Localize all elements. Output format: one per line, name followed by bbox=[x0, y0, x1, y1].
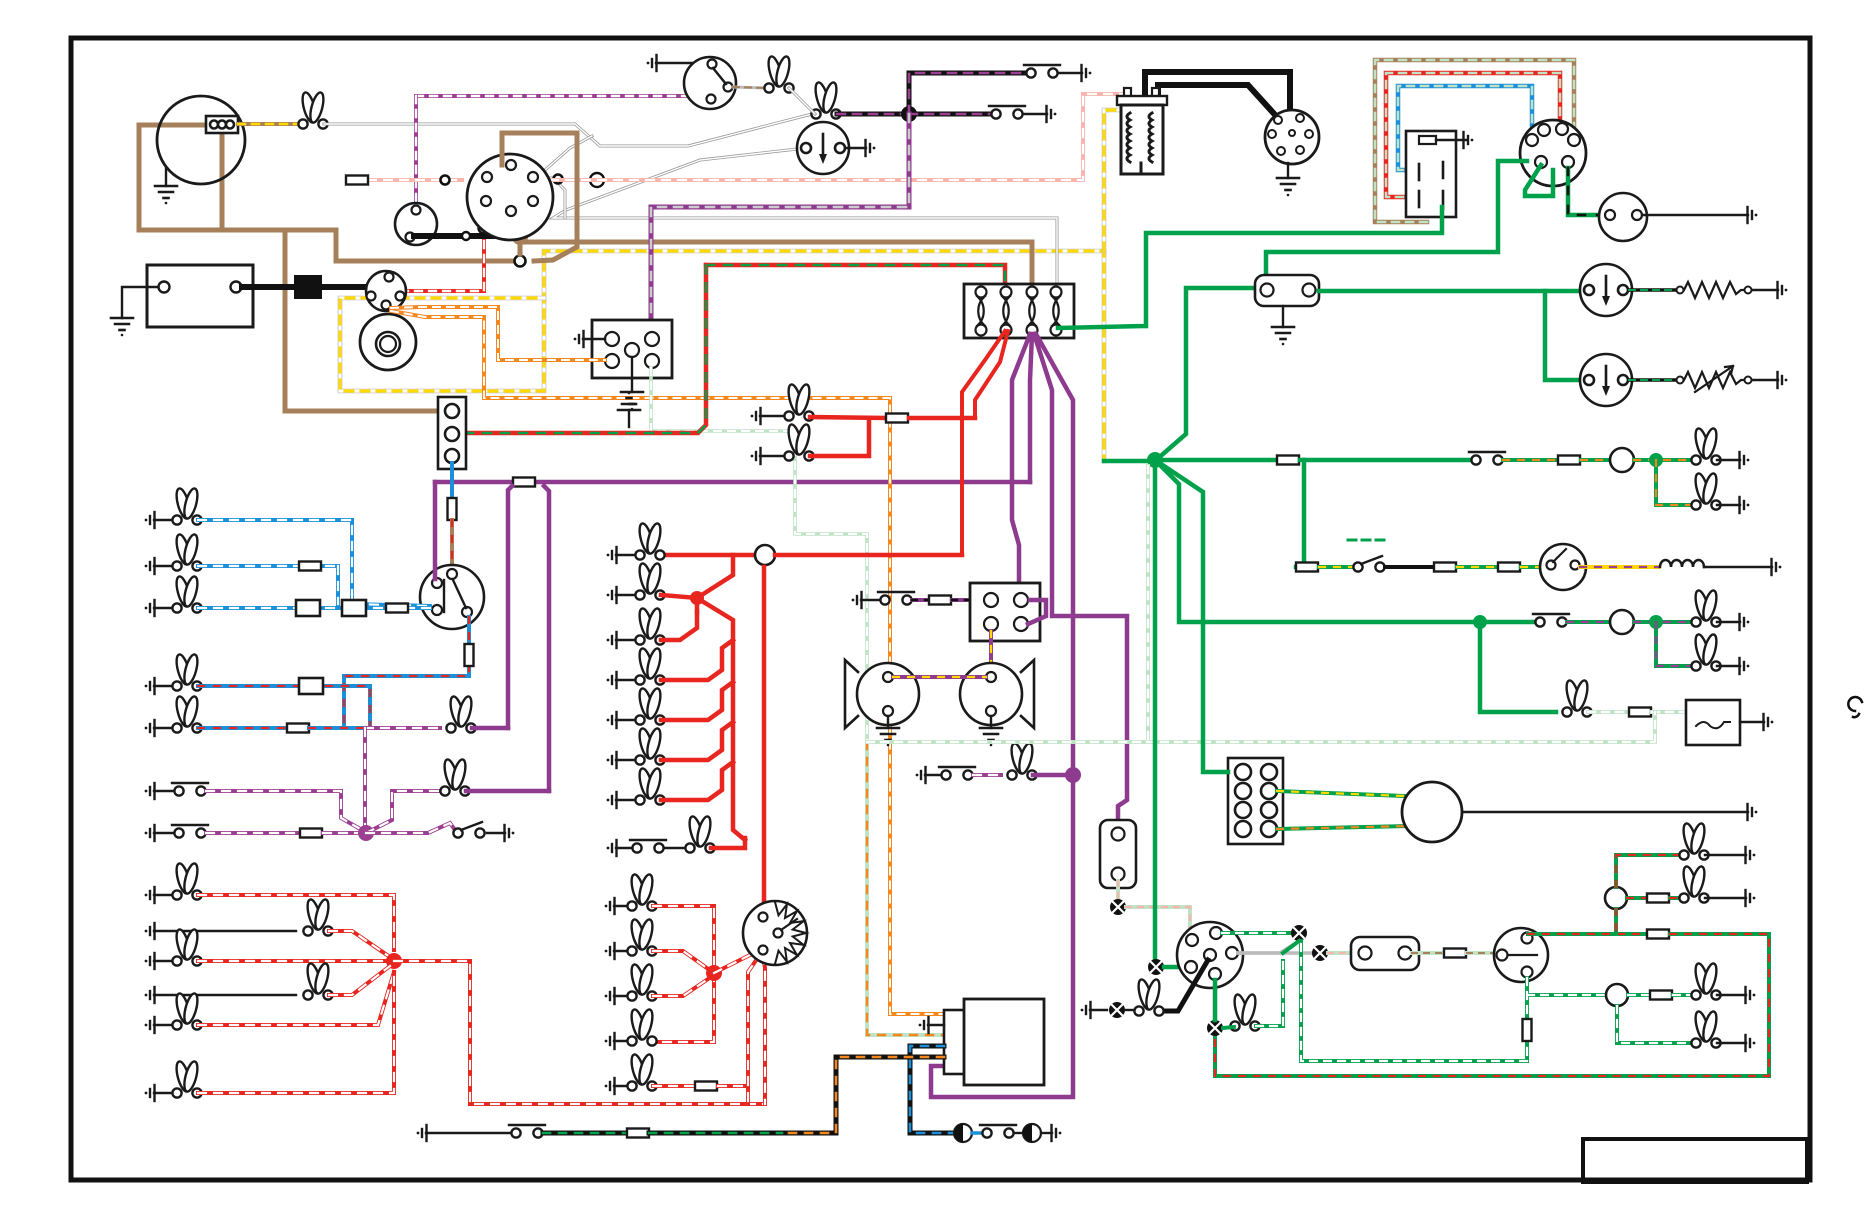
stop lamp switch rounded box bbox=[1100, 820, 1136, 888]
lamp LH front indicator bbox=[1230, 993, 1259, 1030]
wire red lamp row feeds upper mid bbox=[751, 408, 761, 424]
wire black/blue wiper to washer switch bbox=[910, 1046, 952, 1133]
wire red/white tail LH bbox=[198, 895, 394, 950]
lamp beam warning bbox=[145, 600, 155, 616]
wire black battery to solenoid bbox=[242, 284, 368, 290]
starter solenoid bbox=[366, 271, 406, 311]
wire black lever to horn push bbox=[1166, 960, 1208, 1011]
wire grey column feed to fusebox bbox=[553, 148, 1057, 290]
row 4: glovebox lamp bbox=[1480, 622, 1556, 712]
heater motor switch circle bbox=[1540, 544, 1586, 590]
ground relay left bbox=[583, 338, 605, 340]
node green main bbox=[1147, 452, 1163, 468]
washer pump row bbox=[954, 1124, 972, 1142]
wire brown connector drop bbox=[220, 131, 225, 230]
ignition switch bbox=[467, 154, 553, 240]
wire purple lamp2 to trunk B bbox=[466, 789, 549, 794]
flasher unit turn bbox=[797, 122, 849, 174]
wire purple/white lamp feed bbox=[365, 726, 440, 730]
wire purple to panel feed bbox=[1030, 334, 1032, 482]
lamp panel 2 bbox=[607, 587, 617, 603]
temperature gauge bbox=[1580, 264, 1632, 316]
flasher unit 2 rounded bbox=[1351, 937, 1419, 970]
door switch box bbox=[1686, 700, 1740, 745]
wire grey column to snap2 bbox=[1238, 941, 1299, 953]
wire green/red big loop bbox=[1614, 909, 1618, 934]
branch to lamp 2 bbox=[1656, 460, 1694, 505]
switch map light bbox=[607, 840, 617, 856]
wire blue/red to junction bbox=[198, 726, 287, 730]
distributor bbox=[1265, 110, 1319, 164]
wire black/green with fuse bbox=[543, 1131, 627, 1136]
wire green/pale relay bottom drop bbox=[651, 368, 867, 742]
switch hazard top bbox=[1024, 65, 1060, 78]
lamp LH rear indicator bbox=[1617, 1006, 1694, 1043]
lamp panel 1 bbox=[607, 547, 617, 563]
title block bbox=[1583, 1139, 1807, 1182]
wire red/green loop from lighting connector bbox=[465, 265, 706, 433]
lighting switch bbox=[743, 901, 807, 965]
lamp inst 4 bbox=[605, 1033, 615, 1049]
lamp panel 6 bbox=[607, 752, 617, 768]
wire pale green snap to flasher bbox=[1328, 951, 1352, 955]
wire green/red to lamp RH front bbox=[1616, 855, 1682, 887]
wire red fusebox to lamps fan bbox=[909, 331, 1005, 555]
page curl mark bbox=[1848, 697, 1862, 717]
wiper motor connector circle bbox=[1520, 120, 1586, 186]
voltage stabilizer bbox=[1255, 275, 1319, 306]
wire green to flasher gauges bbox=[1319, 289, 1581, 294]
wire red/white main tail feed bbox=[394, 961, 765, 1104]
resistor temperature sender bbox=[1684, 282, 1745, 298]
horn RH bbox=[1021, 660, 1034, 728]
cigar lighter row bbox=[916, 767, 926, 783]
lamp inst 2 bbox=[605, 943, 615, 959]
lamp panel 7 bbox=[607, 792, 617, 808]
lamp tail RH bbox=[145, 1017, 155, 1033]
battery bbox=[147, 265, 253, 327]
ring terminals pink run bbox=[441, 176, 450, 185]
wire green/yellow to speedometer bbox=[1277, 791, 1404, 796]
lamp interior light 1 bbox=[446, 695, 475, 732]
junction red dot bbox=[386, 953, 402, 969]
junction red small bbox=[690, 591, 704, 605]
starter motor bbox=[360, 314, 416, 370]
brake pressure switch bbox=[684, 57, 736, 109]
wire purple/white row B with fuse bbox=[206, 831, 299, 835]
wire brown/red fuse to dip switch bbox=[450, 520, 454, 572]
ground brake switch bbox=[647, 55, 657, 71]
ground horn switch bbox=[852, 592, 862, 608]
horn relay bbox=[970, 583, 1040, 641]
lamp panel 5 bbox=[607, 712, 617, 728]
wire blue/red dip to fog lamps bbox=[325, 617, 469, 728]
wire white to column bbox=[324, 114, 812, 146]
lamp hazard warning bbox=[811, 81, 840, 118]
lamp boot bbox=[145, 1085, 155, 1101]
wire blue connector to dip fuse bbox=[450, 463, 454, 498]
indicator repeater circle R bbox=[1605, 887, 1627, 909]
junction white circle bbox=[661, 553, 753, 558]
wire to resistance bbox=[1629, 288, 1676, 292]
wire green/black to gauge bbox=[1568, 168, 1604, 215]
wiper motor assembly bbox=[944, 1010, 966, 1074]
wire blue/white to dip switch bbox=[198, 606, 430, 610]
lamp ignition warning bbox=[298, 91, 327, 128]
wire to fuel sender bbox=[1629, 378, 1676, 382]
wire orange main run to wiper motor bbox=[391, 311, 946, 1014]
lamp number plate 1 bbox=[145, 923, 155, 939]
wire purple to brake switch box bbox=[1034, 334, 1127, 820]
wire red feed from lamp circuit bbox=[762, 567, 767, 912]
row 1: interior lamps bbox=[1155, 458, 1276, 463]
ground wiper bbox=[928, 1024, 944, 1026]
earth tap on red loop bbox=[628, 410, 630, 427]
wire purple/white row A bbox=[206, 791, 362, 830]
wire green/white loop via bottom bbox=[1301, 941, 1527, 1061]
lamp number plate 2 bbox=[145, 987, 155, 1003]
row 3: courtesy lamps bbox=[1155, 460, 1477, 622]
wire red feed to fusebox bbox=[706, 265, 1005, 291]
indicator repeater circle L bbox=[1606, 984, 1628, 1006]
wire purple to horn relay bbox=[1012, 334, 1030, 596]
wire purple lamp to trunk bbox=[472, 726, 508, 731]
wire purple to dip switch bbox=[433, 482, 438, 579]
wire grey ignition switch upper right bbox=[536, 136, 592, 178]
lamp tail mid bbox=[145, 953, 155, 969]
wire blue/white main beam bbox=[198, 520, 430, 606]
junction purple dot bbox=[358, 825, 374, 841]
wire blue/white with fuse bbox=[198, 564, 338, 568]
tank unit 2-pin bbox=[1599, 193, 1647, 241]
wire purple/white dot to door switch bbox=[366, 823, 455, 833]
wire purple/white dot to courtesy lamp bbox=[366, 791, 444, 833]
lamp LH dip beam bbox=[145, 678, 155, 694]
wire purple/white feed to relay circle bbox=[416, 94, 700, 98]
wire purple/yellow between horns bbox=[893, 675, 986, 679]
wire green main to snap bbox=[1153, 460, 1158, 959]
wire brown generator feed bbox=[139, 125, 336, 230]
wire brown/green loop bbox=[1375, 60, 1574, 222]
wire pink ignition switch to coil bbox=[550, 94, 1124, 180]
wire brown long feed to fusebox bbox=[520, 242, 1032, 290]
lamp RH main beam bbox=[145, 558, 155, 574]
wire black/purple lamp to junction bbox=[837, 112, 909, 117]
wire pale green long bbox=[867, 466, 1655, 742]
wire purple main trunk bbox=[931, 334, 1073, 1097]
wire blue/red dip beams bbox=[198, 686, 370, 728]
column connector 7 pin bbox=[1177, 922, 1243, 988]
wire green/orange to speedometer bbox=[1277, 826, 1410, 829]
lamp RH dip beam bbox=[145, 720, 155, 736]
wire pale green/pink snap to column bbox=[1126, 907, 1190, 934]
wire purple trunk A bbox=[508, 486, 512, 728]
wire red/white feeds to switch bbox=[748, 953, 761, 1104]
lighting connector 3-pin bbox=[438, 397, 466, 469]
ground battery bbox=[122, 287, 158, 318]
wire green/white switch down through fuse bbox=[1527, 978, 1605, 1061]
ignition coil bbox=[1117, 88, 1167, 174]
headlamp dip switch bbox=[420, 565, 484, 629]
wire purple/black to fuse bbox=[912, 598, 928, 602]
ground generator bbox=[165, 168, 167, 186]
red bus vertical bbox=[697, 598, 745, 840]
inline connector pink bbox=[346, 176, 368, 185]
wire yellow/purple to motor coil bbox=[1580, 565, 1658, 569]
lamp inst 3 bbox=[605, 988, 615, 1004]
lamp brake warning bbox=[764, 55, 793, 92]
wire brown dot to ignition switch bbox=[520, 209, 524, 254]
wire pale green/pink box to snap bbox=[1116, 881, 1120, 899]
lamp horn push bbox=[1081, 1002, 1091, 1018]
fuel gauge bbox=[1580, 354, 1632, 406]
wire white between lamps bbox=[789, 88, 815, 114]
lamp inst 5 bbox=[605, 1078, 615, 1094]
lamp panel 3 bbox=[607, 632, 617, 648]
junction red dot lighting sw bbox=[706, 965, 722, 981]
wire green column to snap3 bbox=[1213, 980, 1218, 1020]
generator G bbox=[157, 96, 245, 184]
lamp tail LH bbox=[145, 887, 155, 903]
horn LH bbox=[845, 660, 858, 728]
ground relay bottom bbox=[631, 357, 633, 392]
row 2: heater blower bbox=[1296, 460, 1304, 567]
connector black blob bbox=[294, 275, 322, 299]
switch row B bbox=[145, 825, 155, 841]
wire pale green flasher to ind switch bbox=[1412, 951, 1443, 955]
wire brown/yellow to warning lamp bbox=[238, 122, 302, 126]
wire black/purple junction up right bbox=[909, 73, 1028, 114]
wire green/white column to flasher snap bbox=[1222, 931, 1291, 935]
wire brown to lighting connector bbox=[285, 230, 445, 411]
wire red/white solenoid to ignition switch bbox=[401, 207, 484, 291]
wire purple lighting feed bbox=[435, 480, 512, 485]
junction brown dot bbox=[512, 229, 528, 245]
switch door bbox=[453, 822, 484, 838]
wire green/red to lamp RH rear bbox=[1627, 896, 1646, 900]
wire yellow/white solenoid right bbox=[400, 296, 544, 301]
switch row A bbox=[145, 783, 155, 799]
wire red/green loop bbox=[1386, 73, 1560, 197]
wire purple/yellow relay to horn bbox=[989, 631, 993, 671]
wire brown ignition switch top bbox=[502, 133, 577, 261]
direction indicator switch bbox=[1494, 928, 1548, 982]
wire brown step to solenoid junction bbox=[336, 230, 512, 261]
wire green connector feed bbox=[1155, 460, 1228, 772]
wire yellow/grey to coil terminal bbox=[1104, 110, 1120, 251]
connector 3-pin on generator bbox=[206, 116, 238, 133]
inductor heater motor bbox=[1660, 560, 1704, 567]
wire black coil-distributor bbox=[1145, 72, 1290, 126]
wire tan switch to lamp bbox=[733, 87, 766, 88]
node junction black bbox=[901, 106, 917, 122]
wire pink connector to ignition switch bbox=[368, 178, 462, 182]
wire green wiper hook bbox=[1525, 165, 1553, 196]
variable resistor fuel sender bbox=[1684, 372, 1745, 388]
wire blue/green loop bbox=[1398, 86, 1532, 170]
wire black relay to ignition switch bbox=[414, 214, 503, 236]
fusebox bbox=[964, 284, 1074, 338]
switch stoplamp bbox=[989, 106, 1025, 119]
wire yellow/white solenoid loop bbox=[340, 251, 1104, 461]
speedometer bbox=[1402, 782, 1462, 842]
lamp inst 1 bbox=[605, 898, 615, 914]
lamp LH main beam bbox=[145, 512, 155, 528]
lamp panel 4 bbox=[607, 672, 617, 688]
wire green feeds from bus bbox=[1058, 207, 1442, 328]
ignition relay 2-pin bbox=[395, 203, 437, 245]
wire black/purple junction right bbox=[909, 112, 993, 117]
wire purple/grey junction down to relay bbox=[651, 114, 909, 322]
wire purple trunk B bbox=[544, 486, 549, 791]
bottom row: panel switch bbox=[417, 1125, 427, 1141]
wiper relay box bbox=[1406, 131, 1456, 217]
wire purple link on relay bbox=[1028, 600, 1046, 624]
wire black/orange wiper switch bbox=[782, 1057, 944, 1133]
wire green/red switch top loop bbox=[1528, 932, 1646, 936]
wire orange relay feed bbox=[391, 307, 605, 360]
lamp interior light 2 bbox=[440, 758, 469, 795]
wire grey ignition switch right bbox=[536, 178, 565, 218]
wire pale-green/orange feed bbox=[867, 742, 946, 1035]
column connector 8-pin bbox=[1228, 758, 1283, 844]
